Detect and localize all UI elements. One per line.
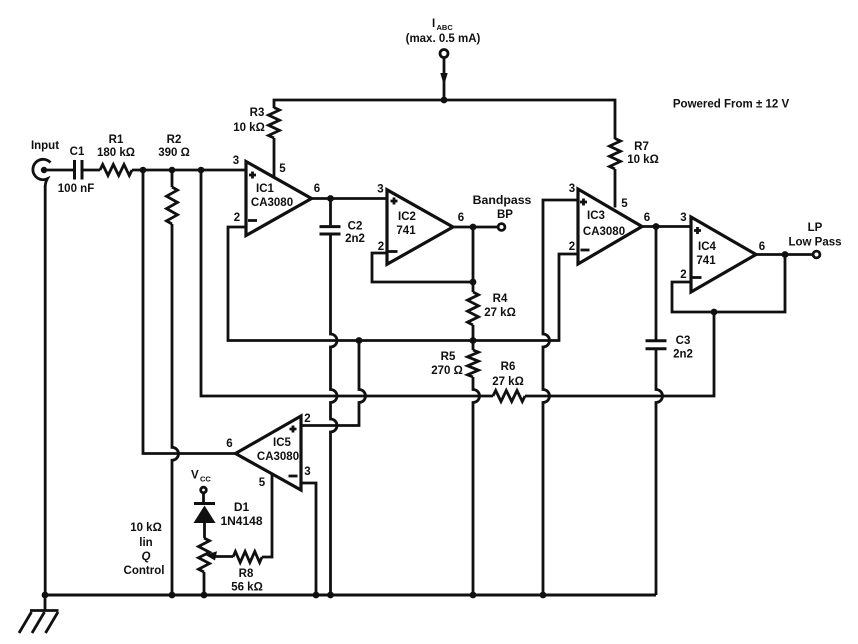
wire top bus R3 to R7 <box>274 100 615 139</box>
svg-text:D1: D1 <box>234 500 250 514</box>
ground symbol <box>19 595 59 633</box>
node R4/R5 on bus341 <box>470 337 477 344</box>
svg-text:6: 6 <box>314 183 320 195</box>
svg-text:R7: R7 <box>634 141 649 153</box>
svg-text:3: 3 <box>304 466 310 478</box>
node bus397 top junction <box>198 167 205 174</box>
svg-text:IC4: IC4 <box>698 241 717 253</box>
capacitor C2 <box>320 199 365 246</box>
wire IC4 pin2 feedback loop <box>672 255 785 313</box>
node IC2 output <box>470 224 477 231</box>
node rail pot <box>201 592 208 599</box>
IABC current source terminal <box>406 18 481 100</box>
svg-text:5: 5 <box>621 198 628 210</box>
wire IC1 output to IC2 pin3 <box>312 197 388 200</box>
input jack J1 <box>31 140 59 187</box>
node IC4 output <box>782 251 789 258</box>
capacitor C1 <box>58 146 94 195</box>
resistor R8 <box>231 552 263 594</box>
svg-text:180 kΩ: 180 kΩ <box>97 147 135 159</box>
node R6 tap on IC4 feedback <box>711 309 718 316</box>
node rail R5 <box>470 592 477 599</box>
svg-text:741: 741 <box>696 255 716 267</box>
svg-text:Low Pass: Low Pass <box>788 237 841 249</box>
svg-text:R2: R2 <box>167 134 182 146</box>
wire IC5 pin5 down to R8 <box>262 474 272 557</box>
wire R3 to IC1 pin5 <box>273 138 276 179</box>
wire R1 to IC1 pin3 <box>132 169 246 172</box>
node rail input drop <box>42 592 49 599</box>
svg-text:I: I <box>432 18 435 30</box>
wire IC3 pin3 to ground rail with hops over bus341 and bus397 <box>543 200 578 595</box>
wire jack ground drop <box>44 186 47 595</box>
svg-text:10 kΩ: 10 kΩ <box>627 154 659 166</box>
svg-text:6: 6 <box>226 438 232 450</box>
svg-text:1N4148: 1N4148 <box>220 514 262 528</box>
svg-text:CC: CC <box>200 475 211 484</box>
wire IC5 output to input node riser <box>143 170 236 454</box>
op-amp IC3 CA3080 <box>569 183 650 264</box>
ground rail <box>45 594 656 597</box>
svg-text:10 kΩ: 10 kΩ <box>233 122 265 134</box>
BP output terminal <box>473 193 532 230</box>
wire input node to C1 <box>47 169 73 172</box>
wire IC5 pin2 riser with hop over bus397 <box>301 341 366 426</box>
resistor R5 <box>431 341 478 378</box>
op-amp IC4 741 <box>680 212 765 292</box>
wire bus397 right section to IC4 feedback node <box>525 312 714 396</box>
op-amp IC2 741 <box>377 184 464 265</box>
node IC5 pin2 riser on bus341 <box>356 337 363 344</box>
svg-text:R1: R1 <box>109 134 124 146</box>
svg-text:Q: Q <box>142 551 151 563</box>
svg-text:2: 2 <box>680 269 686 281</box>
svg-text:2: 2 <box>304 413 310 425</box>
svg-text:Bandpass: Bandpass <box>473 193 532 207</box>
svg-text:CA3080: CA3080 <box>251 197 293 209</box>
svg-text:6: 6 <box>759 241 765 253</box>
wire IC2 pin2 feedback loop <box>372 253 473 282</box>
resistor R3 <box>233 107 279 138</box>
wire C3 bottom to rail corner with hop over bus397 <box>656 350 663 596</box>
svg-text:IC3: IC3 <box>587 210 605 222</box>
svg-text:lin: lin <box>139 537 152 549</box>
svg-text:C1: C1 <box>70 146 85 158</box>
resistor R1 <box>97 134 135 176</box>
svg-text:2n2: 2n2 <box>673 349 693 361</box>
svg-text:Control: Control <box>124 565 165 577</box>
svg-text:LP: LP <box>808 222 823 234</box>
svg-text:CA3080: CA3080 <box>257 451 299 463</box>
wire C1 to R1 <box>84 169 101 172</box>
svg-text:R6: R6 <box>501 361 516 373</box>
svg-text:(max. 0.5 mA): (max. 0.5 mA) <box>406 33 481 45</box>
LP output terminal <box>788 222 841 258</box>
node R1/IC5-feedback junction <box>140 167 147 174</box>
svg-text:10 kΩ: 10 kΩ <box>130 522 162 534</box>
diode D1 1N4148 <box>194 500 263 538</box>
node IC2 feedback / R4 <box>470 279 477 286</box>
wire C2 bottom to rail with hops over bus341, bus397, ic5pin2 wire <box>331 236 338 596</box>
node rail IC5 pin3 <box>313 592 320 599</box>
wire R5 bottom to rail with hop over bus397 <box>473 377 480 595</box>
node IC1 output / C2 <box>327 195 334 202</box>
svg-text:R3: R3 <box>250 107 265 119</box>
wire R2 bottom to ground rail with hop over IC5 output wire <box>172 224 179 595</box>
svg-text:IC2: IC2 <box>398 211 416 223</box>
svg-text:IC1: IC1 <box>256 183 275 195</box>
svg-text:BP: BP <box>497 209 513 221</box>
wire IC1 pin2 to bus341, bus341, riser to IC3 pin2 <box>228 227 578 341</box>
svg-text:2n2: 2n2 <box>345 233 365 245</box>
node rail R2 <box>169 592 176 599</box>
resistor R6 <box>492 361 525 402</box>
svg-text:6: 6 <box>458 212 464 224</box>
resistor R2 <box>158 134 190 224</box>
svg-text:27 kΩ: 27 kΩ <box>484 307 516 319</box>
svg-text:C3: C3 <box>676 335 691 347</box>
wire IC4 output to LP <box>756 253 813 256</box>
op-amp IC5 CA3080 <box>226 413 310 490</box>
svg-text:3: 3 <box>569 183 575 195</box>
svg-text:390 Ω: 390 Ω <box>158 147 190 159</box>
svg-text:R8: R8 <box>239 568 254 580</box>
svg-text:R5: R5 <box>441 351 456 363</box>
svg-text:56 kΩ: 56 kΩ <box>231 582 263 594</box>
svg-text:IC5: IC5 <box>273 437 292 449</box>
svg-text:C2: C2 <box>348 221 363 233</box>
svg-text:741: 741 <box>396 225 416 237</box>
resistor R7 <box>610 139 659 170</box>
wire IC3 output down to C3 <box>655 227 658 341</box>
svg-text:3: 3 <box>233 155 239 167</box>
svg-text:V: V <box>191 470 199 482</box>
node rail C2 <box>327 592 334 599</box>
svg-text:3: 3 <box>377 184 383 196</box>
capacitor C3 <box>646 335 693 361</box>
svg-text:2: 2 <box>569 241 575 253</box>
svg-text:2: 2 <box>378 241 384 253</box>
svg-text:Input: Input <box>31 140 59 152</box>
svg-text:Powered From ± 12 V: Powered From ± 12 V <box>673 99 790 111</box>
node IABC on top bus <box>441 97 448 104</box>
wire R7 to IC3 pin5 <box>614 169 617 208</box>
svg-text:R4: R4 <box>493 293 508 305</box>
svg-text:2: 2 <box>234 212 240 224</box>
wire IC2 output to BP <box>453 226 498 229</box>
svg-text:270 Ω: 270 Ω <box>431 365 463 377</box>
wire IC3 output to IC4 pin3 <box>642 225 691 228</box>
svg-text:5: 5 <box>259 477 266 489</box>
resistor R4 <box>468 282 516 341</box>
op-amp IC1 CA3080 <box>233 155 320 236</box>
svg-text:3: 3 <box>680 212 686 224</box>
svg-text:ABC: ABC <box>437 23 454 32</box>
wire IC5 pin3 to ground rail <box>301 483 316 595</box>
svg-text:CA3080: CA3080 <box>583 226 625 238</box>
node rail IC3 pin3 <box>540 592 547 599</box>
svg-text:6: 6 <box>644 212 650 224</box>
wire IC2 output down to feedback node <box>472 227 475 282</box>
svg-text:5: 5 <box>279 163 286 175</box>
svg-text:27 kΩ: 27 kΩ <box>492 376 524 388</box>
Vcc terminal <box>191 470 211 503</box>
svg-text:100 nF: 100 nF <box>58 183 94 195</box>
potentiometer 10k lin Q control <box>124 522 233 595</box>
wire bus397 left section from input node <box>201 170 493 396</box>
node R2 top junction <box>169 167 176 174</box>
node IC3 output / C3 <box>653 223 660 230</box>
